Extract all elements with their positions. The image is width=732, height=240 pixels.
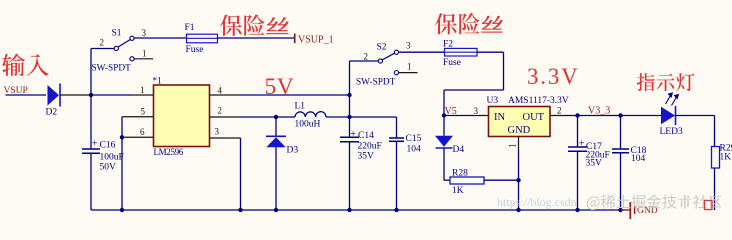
wire ground rail <box>91 209 621 211</box>
capacitor C16 <box>82 148 100 150</box>
wire C17 branch <box>577 116 579 148</box>
wire input to U1 pin1 <box>91 94 132 96</box>
wire F1 to VSUP_1 <box>218 37 295 39</box>
svg-text:1: 1 <box>140 85 145 95</box>
junction C16 tie gnd <box>120 208 124 212</box>
svg-text:S1: S1 <box>112 29 122 39</box>
capacitor C17 <box>568 146 587 148</box>
pin 3 stub <box>210 137 241 139</box>
annotation 保险丝 left <box>220 15 242 36</box>
annotation 保险丝 right <box>435 13 457 34</box>
svg-text:VSUP_1: VSUP_1 <box>298 35 334 46</box>
junction R28 gnd pin <box>516 178 520 182</box>
wire S1-3 to F1 <box>134 37 186 39</box>
svg-text:C15: C15 <box>406 134 422 144</box>
capacitor C15 <box>389 137 404 139</box>
svg-text:C16: C16 <box>100 141 116 151</box>
wire L1 to C14 <box>326 116 350 118</box>
junction U3 gnd rail <box>516 208 520 212</box>
wire C18 branch <box>620 116 622 150</box>
pin 6 stub <box>122 136 154 138</box>
diode D4 <box>443 116 445 136</box>
svg-text:1K: 1K <box>720 153 732 163</box>
svg-text:U3: U3 <box>487 96 499 106</box>
svg-text:D3: D3 <box>287 146 299 156</box>
svg-text:R28: R28 <box>452 169 468 179</box>
svg-text:3: 3 <box>406 41 411 51</box>
svg-text:+: + <box>92 138 98 149</box>
svg-text:2: 2 <box>364 52 369 62</box>
svg-text:50V: 50V <box>100 163 117 173</box>
svg-text:104: 104 <box>631 154 646 164</box>
resistor R28 <box>450 177 484 184</box>
wire U3 out <box>550 115 566 117</box>
svg-text:LED3: LED3 <box>660 127 683 137</box>
wire S2-3 to F2 <box>399 51 445 53</box>
svg-text:+: + <box>350 129 356 140</box>
svg-text:F1: F1 <box>185 23 195 33</box>
wire pins 5-6 tie <box>121 117 123 138</box>
svg-text:3: 3 <box>474 106 479 116</box>
svg-text:2: 2 <box>100 38 105 48</box>
wire U3 gnd pin <box>518 137 520 151</box>
svg-text:AMS1117-3.3V: AMS1117-3.3V <box>508 96 569 106</box>
svg-text:L1: L1 <box>295 102 306 112</box>
svg-text:3.3V: 3.3V <box>527 64 580 89</box>
junction C18 top <box>618 113 622 117</box>
watermark text <box>587 196 600 210</box>
svg-text:1K: 1K <box>452 186 464 196</box>
fuse F2 <box>445 48 478 56</box>
wire R28 to gnd pin <box>484 179 519 181</box>
port VSUP_1 <box>294 34 296 44</box>
svg-text:F2: F2 <box>443 40 453 50</box>
wire 5V to S2 <box>350 60 379 62</box>
junction FB node <box>347 93 351 97</box>
svg-text:35V: 35V <box>586 159 603 169</box>
junction C14 gnd <box>347 208 351 212</box>
svg-text:5V: 5V <box>265 74 295 100</box>
annotation 输入 (input) <box>2 54 25 77</box>
wire V5 to U3 <box>444 115 474 117</box>
wire pin2 to L1 <box>241 116 296 118</box>
wire D4 to R28 <box>444 179 450 181</box>
pin 2 stub <box>210 116 241 118</box>
svg-text:C14: C14 <box>358 131 374 141</box>
wire F2 to V5 <box>477 51 504 53</box>
svg-text:V3_3: V3_3 <box>588 106 610 117</box>
wire R29 to gnd <box>714 168 716 210</box>
svg-text:LM2596: LM2596 <box>154 147 184 157</box>
fuse F1 <box>187 34 218 43</box>
svg-text:100uH: 100uH <box>295 120 321 130</box>
junction C17 gnd <box>575 208 579 212</box>
svg-text:GND: GND <box>508 125 531 136</box>
wire S1-1 stub <box>134 58 153 60</box>
svg-text:OUT: OUT <box>523 112 545 123</box>
wire LED3 to R29 <box>676 115 715 117</box>
capacitor C18 <box>612 148 629 150</box>
svg-text:100uF: 100uF <box>100 153 124 163</box>
svg-text:2: 2 <box>218 106 223 116</box>
svg-text:D2: D2 <box>46 108 58 118</box>
svg-text:Fuse: Fuse <box>443 58 461 68</box>
inductor L1 <box>295 112 326 117</box>
svg-text:220uF: 220uF <box>358 142 382 152</box>
svg-text:5: 5 <box>141 107 146 117</box>
svg-text:SW-SPDT: SW-SPDT <box>356 78 396 88</box>
svg-text:Fuse: Fuse <box>186 45 204 55</box>
ground GND port <box>621 209 631 211</box>
regulator U3 body <box>489 107 551 137</box>
wire up to S1 <box>90 49 92 96</box>
wire S2-1 stub <box>399 72 418 74</box>
diode D2 <box>48 85 60 106</box>
op- regulator U1 LM2596 body <box>154 85 210 147</box>
junction V5 node <box>442 113 446 117</box>
svg-text:1: 1 <box>407 62 412 72</box>
svg-text:1: 1 <box>508 144 518 149</box>
svg-text:6: 6 <box>140 127 145 137</box>
junction C18 gnd <box>618 208 622 212</box>
wire pin4 feedback <box>241 94 350 96</box>
svg-text:4: 4 <box>218 86 223 96</box>
annotation 指示灯 <box>637 73 655 91</box>
svg-text:*1: *1 <box>153 76 162 86</box>
junction 5V node <box>347 115 351 119</box>
watermark red mark <box>705 201 713 210</box>
wire C15 branch <box>396 117 398 138</box>
svg-text:1: 1 <box>142 49 147 59</box>
svg-text:D4: D4 <box>453 145 465 155</box>
junction D3 node <box>274 115 278 119</box>
wire tie down to ground <box>121 137 123 210</box>
switch S2 <box>378 59 382 63</box>
junction pin3 gnd <box>238 208 242 212</box>
svg-text:IN: IN <box>494 112 505 123</box>
svg-text:35V: 35V <box>358 152 375 162</box>
pin 5 stub <box>122 116 154 118</box>
svg-text:104: 104 <box>407 145 422 155</box>
svg-text:S2: S2 <box>377 43 387 53</box>
junction pin6 tie <box>120 135 124 139</box>
capacitor C14 <box>340 136 359 138</box>
pin 4 stub <box>210 94 241 96</box>
junction C17 top <box>575 113 579 117</box>
svg-text:2: 2 <box>557 106 562 116</box>
led LED3 <box>661 107 675 125</box>
junction input node <box>89 93 93 97</box>
svg-text:+: + <box>579 138 585 149</box>
wire VSUP input <box>6 94 47 96</box>
svg-text:3: 3 <box>142 28 147 38</box>
wire pin3 down to ground <box>240 138 242 210</box>
wire C16 branch <box>90 95 92 149</box>
switch S1 <box>114 46 118 50</box>
diode D3 <box>275 117 277 136</box>
svg-text:https://blog.csdn: https://blog.csdn <box>497 195 577 209</box>
svg-text:3: 3 <box>215 127 220 137</box>
pin 1 stub <box>132 94 154 96</box>
junction D3 gnd <box>274 208 278 212</box>
wire 5V rail to C15 <box>350 116 397 118</box>
resistor R29 <box>712 147 720 169</box>
wire C14 branch <box>349 61 351 137</box>
svg-text:SW-SPDT: SW-SPDT <box>92 64 132 74</box>
junction C15 gnd <box>394 208 398 212</box>
